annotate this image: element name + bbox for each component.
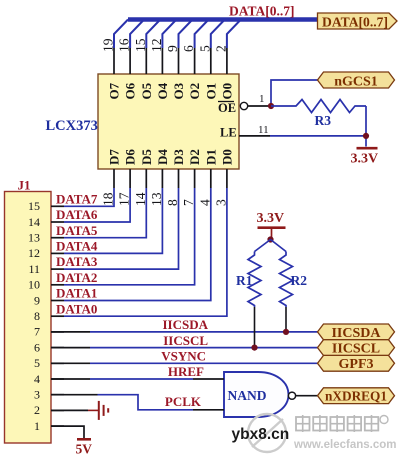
J1 pin 13 stub (51, 237, 64, 239)
pin stub O4 (pin 12) (161, 48, 163, 74)
wire 3.3V to R2 (271, 240, 287, 252)
svg-text:15: 15 (28, 199, 40, 213)
wire NAND output (296, 395, 318, 397)
svg-text:ybx8.cn: ybx8.cn (232, 426, 290, 443)
svg-text:3: 3 (34, 388, 40, 402)
pin stub O2 (pin 6) (194, 48, 196, 74)
gate output bubble (288, 392, 295, 399)
svg-text:5: 5 (197, 45, 212, 52)
svg-text:8: 8 (34, 309, 40, 323)
bus entry pin 9 (179, 20, 193, 49)
svg-text:14: 14 (28, 215, 40, 229)
port IICSDA (318, 324, 395, 341)
svg-text:4: 4 (34, 372, 40, 386)
bus entry pin 19 (114, 20, 128, 49)
svg-text:O3: O3 (171, 82, 186, 99)
svg-text:O2: O2 (187, 83, 202, 100)
svg-text:LE: LE (220, 126, 237, 140)
svg-text:D1: D1 (203, 149, 218, 165)
svg-text:DATA4: DATA4 (56, 239, 98, 254)
pin name OE (overline) (218, 101, 236, 115)
pin stub D6 (pin 17) (129, 169, 131, 188)
svg-text:nGCS1: nGCS1 (334, 74, 378, 89)
J1 pin 8 stub (51, 315, 64, 317)
J1 pin 12 stub (51, 252, 64, 254)
svg-text:D2: D2 (187, 149, 202, 165)
svg-text:DATA5: DATA5 (56, 223, 98, 238)
svg-text:nXDREQ1: nXDREQ1 (325, 390, 387, 405)
bus entry pin 16 (130, 20, 144, 49)
watermark chinese characters (296, 415, 388, 432)
svg-text:12: 12 (149, 39, 164, 53)
junction node R1/IICSCL (251, 345, 257, 351)
bus entry pin 15 (146, 20, 160, 49)
J1 pin 1 stub (51, 425, 64, 427)
pin stub O6 (pin 16) (129, 48, 131, 74)
svg-text:2: 2 (34, 403, 40, 417)
wire DATA2 (64, 188, 195, 285)
svg-text:D0: D0 (219, 149, 234, 165)
wire 3.3V to R1 (255, 240, 271, 252)
svg-text:O5: O5 (139, 82, 154, 99)
pin stub D7 (pin 18) (113, 169, 115, 188)
gate NAND body (224, 372, 289, 417)
wire J1 pin 1 to 5V (51, 426, 84, 438)
J1 pin 14 stub (51, 221, 64, 223)
wire IICSDA (90, 331, 318, 333)
junction node OE (268, 103, 274, 109)
port DATA[0..7] (318, 13, 398, 30)
J1 pin 3 stub (51, 394, 64, 396)
J1 pin 2 stub (51, 409, 64, 411)
wire DATA0 (64, 188, 227, 316)
svg-text:DATA7: DATA7 (56, 191, 98, 206)
wire DATA7 (64, 188, 114, 206)
J1 pin 5 stub (51, 362, 64, 364)
wire DATA5 (64, 188, 146, 238)
svg-text:D7: D7 (107, 149, 122, 165)
svg-text:1: 1 (259, 93, 265, 105)
wire PCLK jog (98, 395, 194, 410)
svg-text:GPF3: GPF3 (339, 357, 374, 372)
wire DATA6 (64, 188, 130, 222)
pin 1 OE bubble (240, 102, 247, 109)
svg-text:DATA2: DATA2 (56, 270, 97, 285)
svg-text:1: 1 (34, 419, 40, 433)
svg-text:2: 2 (213, 45, 228, 52)
wire HREF (90, 378, 193, 380)
wire R3 to 3.3V (365, 106, 367, 147)
svg-text:3.3V: 3.3V (257, 211, 285, 226)
svg-text:R1: R1 (236, 273, 253, 288)
svg-text:3.3V: 3.3V (351, 152, 379, 167)
svg-text:DATA3: DATA3 (56, 254, 98, 269)
svg-text:11: 11 (28, 262, 40, 276)
svg-text:10: 10 (28, 278, 40, 292)
gate input stub PCLK (193, 409, 224, 411)
svg-text:O1: O1 (203, 83, 218, 100)
wire DATA4 (64, 188, 162, 253)
bus entry pin 6 (195, 20, 209, 49)
svg-text:IICSCL: IICSCL (332, 342, 380, 357)
port IICSCL (318, 340, 395, 357)
J1 pin 11 stub (51, 268, 64, 270)
ground (88, 401, 108, 420)
bus entry pin 2 (227, 20, 241, 49)
bus DATA[0..7] (128, 17, 318, 22)
bus entry pin 12 (162, 20, 176, 49)
pin stub D5 (pin 14) (145, 169, 147, 188)
pin stub D3 (pin 8) (178, 169, 180, 188)
svg-text:J1: J1 (18, 178, 31, 193)
junction node R2/IICSDA (283, 329, 289, 335)
pin stub O1 (pin 5) (210, 48, 212, 74)
watermark logo circle (248, 414, 286, 452)
pin stub D4 (pin 13) (161, 169, 163, 188)
svg-text:11: 11 (258, 124, 269, 136)
svg-text:19: 19 (101, 38, 116, 52)
wire DATA1 (64, 188, 211, 301)
svg-text:IICSDA: IICSDA (331, 326, 381, 341)
svg-text:OE: OE (218, 101, 236, 115)
svg-text:HREF: HREF (168, 364, 204, 379)
svg-text:D6: D6 (123, 149, 138, 165)
svg-text:D4: D4 (155, 149, 170, 165)
wire OE to nGCS1 (271, 80, 318, 106)
svg-text:DATA1: DATA1 (56, 286, 97, 301)
svg-text:12: 12 (28, 246, 40, 260)
svg-text:5: 5 (34, 356, 40, 370)
bus entry pin 5 (211, 20, 225, 49)
latch U1 LCX373 body (98, 74, 239, 169)
pin stub D2 (pin 7) (194, 169, 196, 188)
pin stub O3 (pin 9) (178, 48, 180, 74)
port nGCS1 (318, 72, 395, 89)
pin stub LE pin 11 (239, 135, 270, 137)
svg-text:DATA[0..7]: DATA[0..7] (322, 15, 388, 30)
svg-text:7: 7 (34, 325, 40, 339)
resistor R2 (280, 252, 293, 308)
svg-text:NAND: NAND (228, 388, 267, 403)
pin stub D0 (pin 3) (226, 169, 228, 188)
svg-text:DATA[0..7]: DATA[0..7] (229, 4, 295, 19)
svg-text:IICSCL: IICSCL (163, 333, 208, 348)
svg-text:D3: D3 (171, 149, 186, 165)
J1 pin 15 stub (51, 205, 64, 207)
junction node LE/3.3V (363, 133, 369, 139)
svg-text:LCX373: LCX373 (46, 118, 98, 134)
svg-text:15: 15 (133, 38, 148, 52)
junction node 3.3V pull-ups (267, 236, 273, 242)
svg-text:IICSDA: IICSDA (162, 317, 208, 332)
wire IICSCL (90, 347, 318, 349)
J1 pin 10 stub (51, 284, 64, 286)
port GPF3 (318, 355, 395, 372)
wire J1 pin 2 to ground (51, 409, 88, 411)
svg-text:O6: O6 (123, 82, 138, 99)
svg-text:DATA6: DATA6 (56, 207, 98, 222)
svg-text:D5: D5 (139, 149, 154, 165)
wire DATA3 (64, 188, 179, 269)
J1 pin 6 stub (51, 347, 64, 349)
pin stub O5 (pin 15) (145, 48, 147, 74)
svg-text:www.elecfans.com: www.elecfans.com (293, 439, 396, 451)
svg-text:6: 6 (181, 45, 196, 52)
svg-text:9: 9 (165, 45, 180, 52)
svg-text:DATA0: DATA0 (56, 301, 97, 316)
J1 pin 7 stub (51, 331, 64, 333)
wire LE (270, 135, 366, 137)
svg-text:VSYNC: VSYNC (161, 349, 206, 364)
pin stub OE pin 1 (248, 105, 271, 107)
svg-text:O4: O4 (155, 82, 170, 99)
svg-text:O0: O0 (219, 83, 234, 100)
J1 pin 9 stub (51, 300, 64, 302)
power 3.3V (pull-ups) (257, 211, 286, 238)
gate input stub HREF (193, 378, 224, 380)
svg-text:O7: O7 (107, 82, 122, 99)
svg-text:5V: 5V (76, 442, 93, 457)
wire PCLK from J1 pin 3 (51, 394, 98, 396)
svg-text:9: 9 (34, 293, 40, 307)
power 3.3V (right) (351, 148, 379, 166)
resistor R3 (271, 100, 366, 113)
svg-text:PCLK: PCLK (165, 394, 202, 409)
J1 pin 4 stub (51, 378, 64, 380)
pin stub D1 (pin 4) (210, 169, 212, 188)
port nXDREQ1 (318, 388, 395, 405)
connector J1 body (5, 192, 52, 444)
svg-text:13: 13 (28, 231, 40, 245)
svg-text:6: 6 (34, 340, 40, 354)
wire VSYNC (90, 362, 318, 364)
pin stub O0 (pin 2) (226, 48, 228, 74)
power 5V (76, 439, 93, 456)
svg-text:16: 16 (117, 38, 132, 52)
svg-text:R2: R2 (291, 273, 308, 288)
resistor R1 (248, 252, 261, 308)
svg-text:R3: R3 (315, 113, 332, 128)
pin stub O7 (pin 19) (113, 48, 115, 74)
